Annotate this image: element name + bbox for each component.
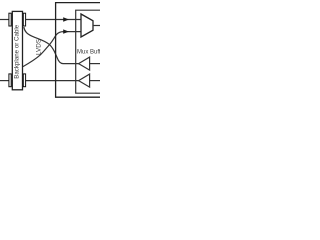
wire: bottom signal from connector to buffer 2 tip	[25, 80, 89, 82]
svg-text:Backplane or Cable: Backplane or Cable	[13, 24, 20, 79]
wire: S-curve B from backplane up through crossover to mux input 2	[23, 32, 82, 67]
inner box (mux buffer device), right side clipped at image edge	[76, 10, 101, 93]
bottom connector right plate	[23, 74, 25, 87]
buffer 2 triangle (points left)	[79, 74, 90, 87]
arrowhead on mux input 1	[63, 17, 69, 21]
bottom connector left plate	[9, 74, 11, 87]
outer box (card / board), right side clipped at image edge	[56, 3, 101, 98]
buffer 1 input wire	[90, 63, 101, 65]
svg-text:LVDS: LVDS	[35, 39, 42, 55]
buffer 1 triangle (points left)	[79, 57, 90, 70]
arrowhead on mux input 2	[63, 29, 69, 33]
buffer 2 input wire	[90, 80, 101, 82]
top connector right plate	[23, 13, 25, 26]
mux output wire	[93, 25, 101, 27]
background	[0, 0, 100, 100]
backplane box	[12, 11, 22, 89]
wire: S-curve A from backplane down through crossover to buffer 1 output line	[24, 27, 90, 64]
wire: top-left stub into backplane connector	[0, 19, 9, 21]
wire: bottom-left stub into backplane connector	[0, 80, 9, 82]
mux trapezoid	[81, 14, 93, 37]
wire: top signal from connector to mux input 1	[25, 19, 81, 21]
svg-text:Mux Buffer: Mux Buffer	[77, 50, 100, 56]
top connector left plate	[9, 13, 11, 26]
